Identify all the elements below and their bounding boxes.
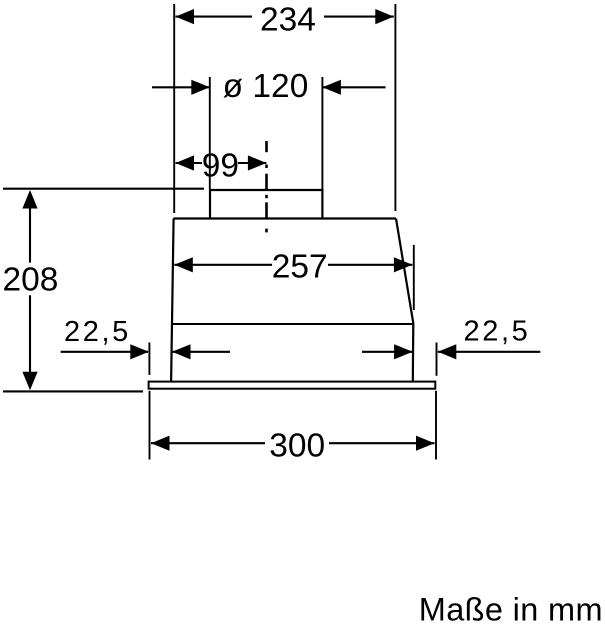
svg-text:ø 120: ø 120 [223,68,309,105]
svg-text:234: 234 [260,1,316,38]
svg-text:208: 208 [3,262,59,299]
dimension 120 arrow right [322,80,385,95]
svg-text:300: 300 [269,428,325,465]
left 22,5 inner arrow [172,344,230,359]
extension line left of 300 [149,391,151,460]
svg-text:22,5: 22,5 [64,316,131,348]
dimension 234 arrow left [176,9,253,24]
hood body left edge [171,219,174,382]
extension line right of 300 [435,391,437,460]
hood body middle line [172,323,413,325]
svg-text:99: 99 [202,147,239,184]
reference line top (208) [3,188,204,190]
extension line right of 234 [394,4,396,211]
dimension 257 arrow right [328,257,412,272]
dimension 99 arrow left [176,155,203,170]
dimension 99 arrow right [238,155,266,170]
hood body right lower edge [412,324,415,382]
extension line right of diameter 120 [321,77,323,189]
dimension 234 arrow right [324,9,394,24]
extension line left of diameter 120 [209,77,211,189]
dimension 257 arrow left [174,257,272,272]
right 22,5 tick extension [436,343,438,376]
dimension 208 arrow up [22,190,37,263]
hood body top edge [174,217,397,219]
dimension 300 arrow left [151,436,265,451]
right 22,5 outer arrow [438,344,541,359]
svg-text:Maße in mm: Maße in mm [419,592,603,624]
dimension 300 arrow right [329,436,435,451]
svg-text:257: 257 [272,248,328,285]
bottom plate [149,382,436,389]
left 22,5 outer arrow [61,344,149,359]
dimension 120 arrow left [152,80,210,95]
left 22,5 tick extension [148,343,150,375]
dimension 208 arrow down [22,295,37,390]
hood body right slanted edge [396,219,413,324]
duct on top of hood [210,190,322,219]
extension line right of 257 [413,245,415,310]
reference line bottom (208) [3,390,143,392]
right 22,5 inner arrow [362,344,413,359]
center line of duct [265,141,268,232]
extension line left of 234 [173,4,175,213]
svg-text:22,5: 22,5 [464,316,531,348]
